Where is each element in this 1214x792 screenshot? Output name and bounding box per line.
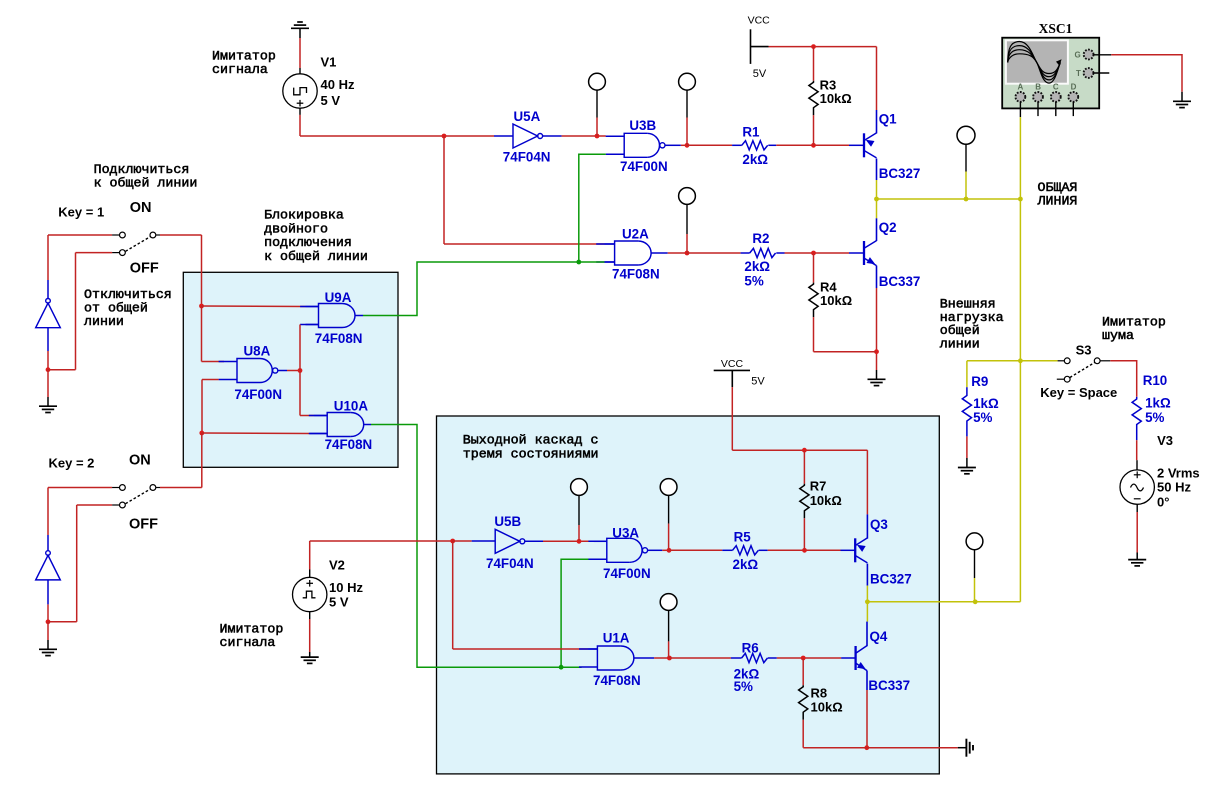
svg-text:линии: линии: [940, 336, 980, 351]
svg-text:Key = 2: Key = 2: [49, 456, 95, 471]
svg-text:ЛИНИЯ: ЛИНИЯ: [1037, 193, 1078, 208]
svg-text:50 Hz: 50 Hz: [1157, 480, 1191, 495]
svg-text:5%: 5%: [744, 274, 763, 289]
svg-text:шума: шума: [1102, 328, 1134, 343]
svg-text:Q4: Q4: [870, 629, 888, 644]
svg-text:VCC: VCC: [748, 15, 771, 27]
svg-text:Q2: Q2: [879, 220, 897, 235]
svg-text:U9A: U9A: [325, 290, 352, 305]
svg-text:U1A: U1A: [603, 631, 630, 646]
svg-text:10kΩ: 10kΩ: [810, 493, 842, 508]
svg-text:BC337: BC337: [868, 678, 910, 693]
svg-text:BC327: BC327: [870, 571, 912, 586]
svg-text:U10A: U10A: [334, 399, 369, 414]
svg-text:C: C: [1053, 83, 1059, 92]
svg-text:R1: R1: [742, 125, 760, 140]
svg-text:OFF: OFF: [130, 261, 159, 277]
svg-text:0°: 0°: [1157, 495, 1169, 510]
svg-text:5%: 5%: [734, 679, 753, 694]
svg-text:сигнала: сигнала: [212, 62, 268, 77]
svg-text:U3A: U3A: [612, 525, 639, 540]
svg-text:74F08N: 74F08N: [593, 673, 641, 688]
svg-text:к общей линии: к общей линии: [264, 249, 368, 264]
svg-text:74F00N: 74F00N: [234, 387, 282, 402]
svg-text:XSC1: XSC1: [1039, 21, 1073, 36]
svg-text:V3: V3: [1157, 433, 1173, 448]
svg-text:OFF: OFF: [129, 517, 158, 533]
svg-text:Блокировка: Блокировка: [264, 208, 344, 223]
svg-text:U3B: U3B: [629, 118, 656, 133]
svg-text:74F04N: 74F04N: [486, 556, 534, 571]
svg-text:G: G: [1075, 51, 1081, 60]
svg-text:10 Hz: 10 Hz: [329, 580, 363, 595]
svg-text:V2: V2: [329, 558, 345, 573]
svg-text:74F08N: 74F08N: [315, 331, 363, 346]
svg-text:74F08N: 74F08N: [325, 437, 373, 452]
svg-text:40 Hz: 40 Hz: [321, 77, 355, 92]
svg-text:A: A: [1018, 83, 1024, 92]
svg-text:B: B: [1035, 83, 1041, 92]
svg-text:U8A: U8A: [244, 344, 271, 359]
svg-text:2kΩ: 2kΩ: [742, 152, 768, 167]
svg-text:1kΩ: 1kΩ: [973, 396, 999, 411]
svg-text:тремя состояниями: тремя состояниями: [463, 446, 599, 461]
svg-text:5 V: 5 V: [321, 93, 341, 108]
svg-text:VCC: VCC: [721, 358, 744, 370]
svg-text:U5A: U5A: [514, 109, 541, 124]
svg-text:U5B: U5B: [494, 514, 521, 529]
svg-text:Key = Space: Key = Space: [1040, 385, 1117, 400]
svg-text:10kΩ: 10kΩ: [820, 293, 852, 308]
svg-text:1kΩ: 1kΩ: [1145, 396, 1171, 411]
svg-text:Выходной каскад с: Выходной каскад с: [463, 433, 599, 448]
svg-text:R9: R9: [971, 374, 988, 389]
svg-text:D: D: [1071, 83, 1077, 92]
svg-text:10kΩ: 10kΩ: [820, 91, 852, 106]
svg-text:U2A: U2A: [622, 227, 649, 242]
svg-text:R2: R2: [752, 231, 769, 246]
svg-text:5V: 5V: [753, 68, 767, 80]
svg-text:5%: 5%: [973, 410, 992, 425]
svg-text:подключения: подключения: [264, 235, 352, 250]
svg-text:Q3: Q3: [870, 517, 888, 532]
svg-text:S3: S3: [1076, 342, 1092, 357]
svg-text:BC337: BC337: [879, 274, 921, 289]
svg-text:5 V: 5 V: [329, 595, 349, 610]
svg-text:BC327: BC327: [879, 166, 921, 181]
svg-text:Key = 1: Key = 1: [58, 205, 104, 220]
svg-text:2kΩ: 2kΩ: [744, 259, 770, 274]
svg-text:2 Vrms: 2 Vrms: [1157, 465, 1200, 480]
svg-text:V1: V1: [321, 55, 337, 70]
svg-text:R10: R10: [1143, 373, 1168, 388]
svg-text:ON: ON: [129, 453, 151, 469]
svg-text:74F00N: 74F00N: [603, 566, 651, 581]
svg-text:R5: R5: [734, 530, 752, 545]
svg-text:к общей линии: к общей линии: [94, 176, 198, 191]
svg-text:R7: R7: [810, 479, 827, 494]
svg-text:Q1: Q1: [879, 111, 897, 126]
svg-text:74F08N: 74F08N: [612, 267, 660, 282]
svg-text:5%: 5%: [1145, 410, 1164, 425]
svg-text:R6: R6: [742, 641, 759, 656]
svg-text:ON: ON: [130, 200, 152, 216]
svg-text:74F04N: 74F04N: [503, 149, 551, 164]
svg-text:линии: линии: [84, 314, 124, 329]
svg-text:5V: 5V: [751, 376, 765, 388]
svg-text:10kΩ: 10kΩ: [811, 699, 843, 714]
svg-text:2kΩ: 2kΩ: [733, 557, 759, 572]
svg-text:сигнала: сигнала: [220, 635, 276, 650]
svg-text:74F00N: 74F00N: [620, 159, 668, 174]
svg-text:T: T: [1076, 69, 1081, 78]
